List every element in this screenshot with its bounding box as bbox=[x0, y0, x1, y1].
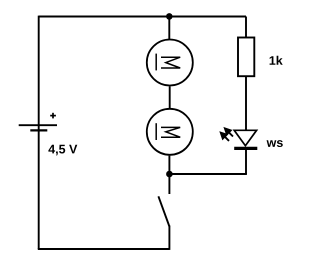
label 1k bbox=[270, 56, 283, 65]
wire right branch top vertical bbox=[245, 17, 247, 38]
resistor R1 1k bbox=[238, 38, 254, 77]
wire junction to motor M1 bbox=[168, 17, 170, 40]
wire motor M1 to motor M2 bbox=[169, 86, 171, 108]
wire motor M2 to switch contact bbox=[168, 156, 170, 194]
LED light arrow 2 bbox=[220, 132, 229, 141]
wire top horizontal bbox=[39, 16, 246, 18]
wire bottom right horizontal bbox=[169, 173, 247, 175]
motor M1 bbox=[147, 40, 193, 86]
LED D1 bbox=[234, 130, 257, 148]
node junction top bbox=[166, 13, 173, 20]
wire left vertical bbox=[38, 16, 40, 249]
battery B1 4,5 V bbox=[19, 113, 57, 131]
motor M2 bbox=[147, 109, 193, 155]
label ws bbox=[267, 140, 283, 147]
node junction bottom bbox=[166, 171, 173, 178]
wire LED to bottom corner bbox=[245, 150, 247, 174]
label 4,5 V bbox=[48, 145, 77, 156]
wire resistor to LED bbox=[245, 76, 247, 130]
wire bottom horizontal bbox=[38, 248, 170, 250]
LED light arrow 1 bbox=[224, 128, 233, 137]
switch S1 lever bbox=[158, 196, 169, 226]
wire switch to bottom bbox=[168, 226, 170, 250]
